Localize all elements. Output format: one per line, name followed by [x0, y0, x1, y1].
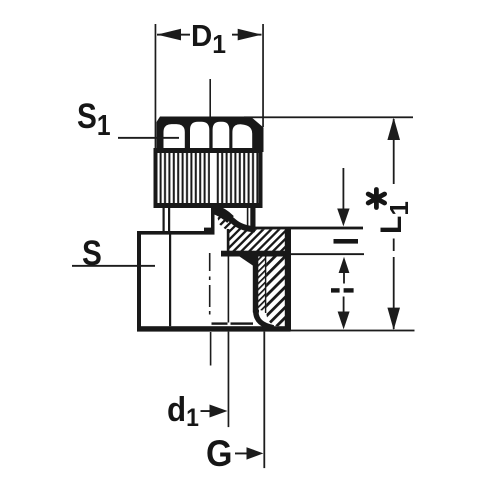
body bottom edge	[137, 326, 291, 331]
label S1	[77, 99, 111, 141]
bore wall runout curve	[256, 312, 274, 328]
S1 leader line	[118, 137, 179, 139]
d1 bore line	[228, 257, 230, 323]
nut cap facet arch 4	[232, 124, 252, 150]
D1 right extension line	[262, 24, 264, 127]
neck center bar	[211, 208, 215, 230]
G arrow	[235, 453, 249, 455]
step line	[221, 251, 291, 257]
label L1 rotated	[377, 198, 413, 234]
l lower extension thin line	[291, 253, 364, 255]
L1 down arrowhead	[387, 308, 400, 330]
shoulder block left edge	[227, 229, 230, 252]
knurl lines	[158, 153, 259, 203]
L1 bottom extension line	[291, 330, 415, 332]
knurl band frame	[154, 148, 263, 208]
neck left leg outer	[163, 208, 165, 232]
cone S-curve stroke	[213, 209, 256, 230]
thread bore wall	[253, 257, 259, 313]
neck left leg inner	[168, 208, 170, 232]
body top edge	[137, 231, 215, 235]
nut cap facet arch 3	[213, 122, 230, 150]
D1 left arrowhead	[157, 29, 181, 41]
label D1	[191, 20, 226, 57]
body right edge	[285, 228, 291, 331]
label G	[206, 435, 232, 472]
right column coarse hatch	[266, 257, 285, 327]
nut cap facet arch 2	[190, 122, 209, 150]
nut cap facet arch 1	[164, 124, 185, 150]
asterisk	[368, 190, 384, 208]
G extension line	[263, 332, 265, 469]
l dimension down arrow	[343, 168, 345, 211]
body hex facet line	[169, 234, 171, 326]
L1 dimension line dash	[393, 239, 395, 252]
D1 right arrowhead	[238, 29, 262, 41]
thread fine hatch strip	[258, 257, 265, 312]
boss step under nut	[204, 228, 215, 231]
label l (rotated bar)	[334, 239, 359, 244]
neck right skirt bar	[250, 208, 255, 228]
D1 dimension line left segment	[157, 34, 190, 36]
d1 arrow	[201, 410, 217, 412]
nut cap (hex dome)	[157, 117, 264, 153]
thread root line	[265, 257, 267, 314]
neck right thin line	[247, 208, 249, 227]
D1 dimension line right segment	[232, 34, 262, 36]
i dimension down arrow	[343, 297, 345, 314]
cone S-curve thick start	[213, 209, 231, 220]
D1 left extension line	[155, 24, 157, 152]
thread entry chamfer	[240, 257, 254, 267]
L1 dimension line upper segment	[393, 119, 395, 184]
cone section hatch wedge	[216, 211, 285, 252]
L1 up arrowhead	[387, 118, 400, 140]
body left edge	[137, 231, 141, 331]
label i (rotated: dot + stem)	[331, 288, 340, 292]
bore bottom mark right	[231, 322, 254, 324]
L1 dimension line lower segment	[393, 257, 395, 329]
label S	[82, 236, 102, 271]
label d1	[167, 393, 199, 431]
centerline axis	[209, 79, 212, 366]
l dimension up arrow	[339, 257, 350, 273]
L1 top extension line	[244, 116, 413, 118]
bore bottom mark left	[212, 322, 228, 324]
d1 extension line	[228, 332, 230, 428]
shoulder top edge / l extension line	[252, 227, 363, 230]
knurl gap	[210, 153, 216, 203]
S leader line	[72, 265, 155, 267]
